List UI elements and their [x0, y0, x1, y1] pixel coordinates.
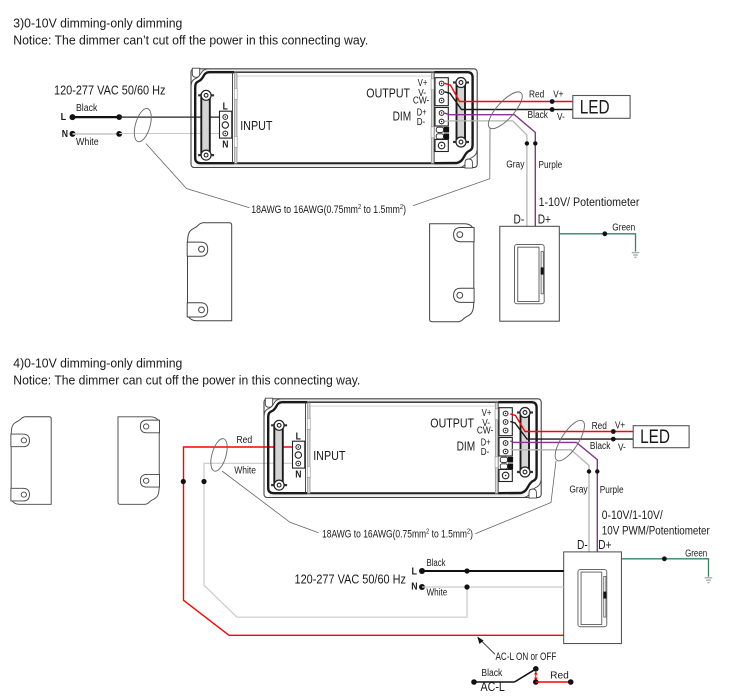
svg-text:1-10V/ Potentiometer: 1-10V/ Potentiometer — [539, 197, 640, 209]
svg-text:LED: LED — [580, 96, 610, 118]
wire loop ellipse (output S4) — [550, 416, 590, 465]
svg-text:White: White — [234, 465, 256, 476]
svg-text:D+: D+ — [538, 213, 551, 227]
leader to AWG note (left) — [146, 144, 250, 208]
svg-text:Notice: The dimmer can’t cut o: Notice: The dimmer can’t cut off the pow… — [13, 33, 368, 47]
svg-text:AC-L ON or OFF: AC-L ON or OFF — [496, 651, 557, 663]
svg-text:Black: Black — [481, 668, 503, 679]
AC-L leader arrow — [481, 640, 496, 654]
LED box — [573, 96, 630, 119]
driver case S4 — [264, 399, 541, 498]
svg-text:10V PWM/Potentiometer: 10V PWM/Potentiometer — [602, 525, 710, 537]
case top gray fill — [196, 70, 472, 72]
svg-text:AC-L: AC-L — [481, 679, 505, 694]
node red — [181, 479, 186, 484]
svg-text:Red: Red — [550, 670, 569, 681]
svg-text:Notice: The dimmer can cut off: Notice: The dimmer can cut off the power… — [13, 373, 360, 387]
dimmer (1-10V potentiometer) — [500, 226, 560, 321]
wire loop ellipse (output) — [483, 87, 527, 133]
svg-text:Black: Black — [427, 558, 447, 569]
svg-text:L: L — [412, 567, 418, 578]
svg-text:3)0-10V dimming-only dimming: 3)0-10V dimming-only dimming — [13, 16, 182, 30]
driver case S3 — [191, 69, 477, 168]
leader to AWG note (left S4) — [222, 471, 319, 533]
svg-text:LED: LED — [640, 426, 670, 448]
case inner top line — [234, 71, 434, 73]
wire white N to dimmer — [422, 586, 564, 588]
switch motion arrow — [535, 674, 537, 679]
driver left cap S4 — [264, 398, 346, 493]
bracket right S4 — [118, 417, 160, 505]
wire green — [559, 234, 635, 252]
node purple — [533, 141, 537, 145]
svg-text:Purple: Purple — [600, 485, 624, 496]
svg-text:Red: Red — [236, 435, 252, 446]
case outer outline — [191, 69, 477, 168]
switch AC-L — [471, 679, 477, 685]
driver right cap S4 — [430, 402, 541, 498]
svg-text:D-: D- — [514, 213, 525, 227]
wire loop ellipse (input S4) — [208, 437, 231, 473]
svg-text:V+: V+ — [615, 420, 625, 431]
node gray S4 — [587, 469, 591, 473]
svg-text:L: L — [61, 112, 67, 123]
case bottom gray fill — [196, 164, 460, 167]
svg-text:N: N — [62, 129, 68, 140]
switch blade — [515, 669, 536, 682]
node V+ S4 — [611, 429, 616, 434]
ground — [632, 253, 640, 258]
svg-text:Gray: Gray — [569, 484, 587, 495]
case faint inner line — [237, 75, 431, 77]
node white — [201, 479, 206, 484]
wire black V- to LED S4 — [510, 421, 633, 439]
svg-text:Red: Red — [529, 90, 544, 101]
case inner bottom line — [234, 162, 434, 164]
wire gray D- S4 — [510, 449, 589, 552]
svg-text:White: White — [427, 588, 448, 599]
svg-text:Black: Black — [528, 110, 549, 121]
svg-text:Gray: Gray — [506, 159, 524, 170]
case inner top line — [307, 401, 498, 403]
wire black V- to LED — [445, 92, 573, 110]
node V- — [550, 107, 555, 112]
svg-text:120-277 VAC 50/60 Hz: 120-277 VAC 50/60 Hz — [295, 572, 407, 586]
node V- S4 — [611, 437, 616, 442]
svg-text:120-277 VAC 50/60 Hz: 120-277 VAC 50/60 Hz — [54, 84, 166, 98]
case outer outline — [264, 399, 541, 498]
node purple S4 — [595, 469, 599, 473]
svg-text:V+: V+ — [553, 89, 563, 100]
wire red switch output — [536, 681, 571, 683]
svg-text:Black: Black — [590, 441, 611, 452]
svg-text:N: N — [411, 582, 417, 593]
svg-text:Red: Red — [592, 421, 607, 432]
svg-text:D+: D+ — [598, 538, 611, 552]
wire gray D- — [445, 121, 527, 226]
svg-text:Green: Green — [685, 548, 707, 559]
svg-text:18AWG to 16AWG(0.75mm2 to 1.5m: 18AWG to 16AWG(0.75mm2 to 1.5mm2) — [251, 202, 406, 216]
case faint inner line — [310, 405, 495, 407]
wire red source to input L — [184, 447, 564, 635]
wire black L to dimmer — [422, 570, 564, 572]
svg-text:Purple: Purple — [539, 160, 563, 171]
case bottom gray fill — [269, 494, 524, 497]
bracket right S3 — [430, 224, 475, 322]
wire purple D+ — [445, 113, 536, 226]
svg-text:18AWG to 16AWG(0.75mm2 to 1.5m: 18AWG to 16AWG(0.75mm2 to 1.5mm2) — [322, 526, 473, 540]
wire black L — [73, 116, 120, 118]
wire purple D+ S4 — [510, 441, 597, 552]
svg-text:D-: D- — [577, 538, 588, 552]
svg-text:4)0-10V dimming-only dimming: 4)0-10V dimming-only dimming — [13, 356, 182, 370]
node gray — [525, 141, 529, 145]
wire white N — [73, 133, 120, 135]
ground S4 — [705, 578, 713, 583]
LED box S4 — [633, 426, 689, 448]
wire red V+ to LED — [445, 83, 573, 101]
dimmer (0-10V) S4 — [564, 552, 622, 644]
svg-text:V-: V- — [557, 112, 565, 123]
leader to AWG note (right S4) — [475, 461, 556, 534]
bracket left S3 — [187, 223, 232, 321]
leader to AWG note (right) — [413, 128, 490, 206]
wire white source to input N — [204, 463, 467, 617]
driver right cap S3 — [366, 72, 477, 168]
svg-text:Black: Black — [76, 103, 98, 114]
wire green S4 — [621, 559, 708, 577]
case top gray fill — [269, 400, 536, 402]
svg-text:White: White — [76, 137, 99, 148]
bracket left S4 — [11, 417, 51, 505]
node green — [602, 231, 607, 236]
svg-text:Green: Green — [612, 222, 635, 233]
svg-text:0-10V/1-10V/: 0-10V/1-10V/ — [602, 510, 664, 522]
driver left cap S3 — [191, 68, 273, 163]
svg-text:V-: V- — [618, 442, 626, 453]
node green S4 — [662, 556, 667, 561]
wire red V+ to LED S4 — [510, 414, 633, 432]
case inner bottom line — [307, 492, 498, 494]
wire loop ellipse (input) — [131, 107, 155, 144]
node V+ — [550, 99, 555, 104]
